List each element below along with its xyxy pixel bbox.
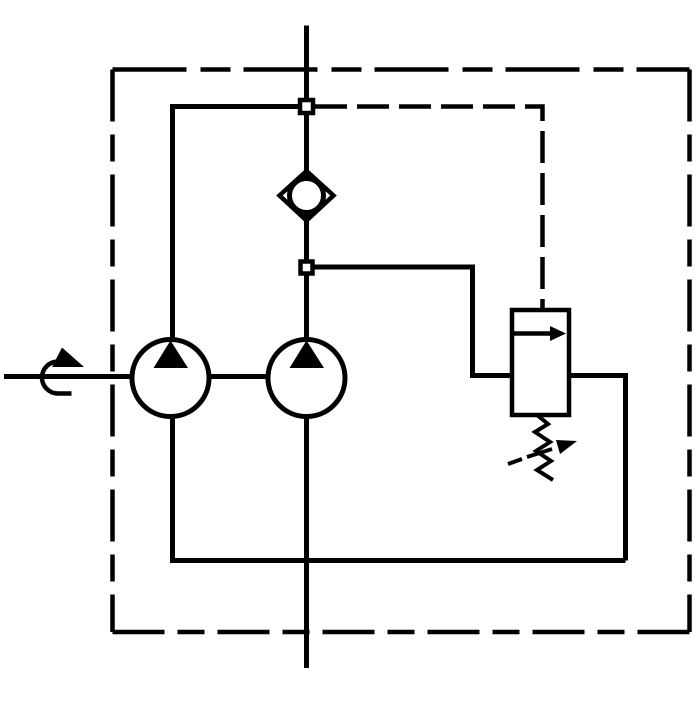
drive shaft [4,374,306,379]
check valve ball [290,179,324,213]
pump P2 flow triangle [290,341,325,369]
node2 to relief valve inlet line [314,267,514,376]
relief valve body [512,310,569,415]
pump P1 (left) circle [132,340,209,417]
rotation arrow (shaft drive) [42,362,72,394]
left pump outlet line [173,107,307,342]
relief valve flow arrow [512,331,553,336]
enclosure boundary (dashed) top [113,67,690,72]
check valve diamond [280,171,334,221]
left pump inlet line [170,415,175,561]
pilot line to relief valve (dashed) [315,107,543,310]
relief valve outlet line [567,376,626,561]
node 1 (port square) [300,100,313,113]
enclosure boundary (dashed) left [110,70,115,633]
relief valve spring [535,415,553,480]
pump P1 flow triangle [154,341,189,369]
return line (bottom horizontal) [170,558,626,563]
node 2 (port square) [301,262,313,274]
spring adjustment arrow [508,459,522,464]
enclosure boundary (dashed) right [687,70,692,633]
enclosure boundary (dashed) bottom [113,630,690,635]
pump P2 (right) circle [268,340,345,417]
main pressure line (center vertical) [304,26,309,669]
